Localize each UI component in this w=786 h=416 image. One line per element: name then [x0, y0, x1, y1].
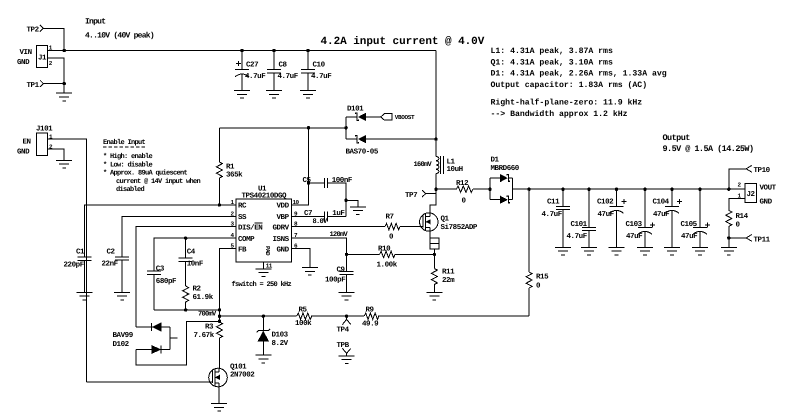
- J1 pin 1: [49, 45, 53, 52]
- svg-text:D103: D103: [272, 331, 289, 340]
- node output rail junctions: [527, 188, 730, 191]
- svg-text:2: 2: [49, 60, 53, 67]
- capacitor C11: [542, 189, 571, 247]
- svg-text:TPS40210DGQ: TPS40210DGQ: [242, 192, 288, 201]
- svg-text:2: 2: [738, 182, 742, 189]
- connector J101: [36, 125, 53, 156]
- U1 PAD pin 11: [264, 246, 273, 270]
- ground (TPB): [339, 356, 355, 364]
- svg-text:49.9: 49.9: [362, 320, 379, 329]
- wire J101 EN to Q101 gate: [47, 139, 86, 382]
- resistor R11: [431, 269, 455, 293]
- connector J2: [745, 183, 757, 202]
- wire VIN feed down to L1: [435, 51, 437, 157]
- ground (J101): [56, 160, 72, 168]
- svg-text:TP10: TP10: [754, 166, 771, 175]
- svg-text:disabled: disabled: [116, 185, 145, 194]
- ground (C103): [637, 247, 653, 255]
- U1 pin 7 ISNS: [273, 232, 299, 244]
- J101 pin 2: [49, 144, 53, 151]
- svg-text:R7: R7: [386, 214, 394, 222]
- ground (C1): [76, 292, 92, 300]
- wire 700mV feedback rail: [198, 310, 529, 318]
- U1 pin 2 SS: [231, 210, 248, 222]
- connector J1: [36, 45, 47, 67]
- U1 pin 6 GND: [277, 243, 299, 255]
- svg-text:0: 0: [536, 282, 541, 291]
- svg-text:GND: GND: [760, 198, 773, 207]
- ground (C2): [114, 292, 130, 300]
- svg-text:C8: C8: [279, 61, 288, 70]
- svg-text:120mV: 120mV: [330, 231, 349, 239]
- svg-text:Enable Input: Enable Input: [103, 138, 146, 147]
- svg-text:R3: R3: [205, 323, 214, 332]
- wire output rail: [512, 188, 745, 190]
- node SW: [434, 188, 437, 191]
- J2 pin 1: [729, 193, 745, 211]
- transistor Q101 2N7002: [209, 363, 256, 404]
- svg-text:100pF: 100pF: [325, 276, 346, 285]
- svg-text:Si7852ADP: Si7852ADP: [441, 223, 478, 232]
- label input current note: [321, 36, 485, 48]
- svg-text:C1: C1: [76, 248, 85, 257]
- svg-text:Q101: Q101: [230, 363, 247, 372]
- wire RC line: [84, 205, 236, 257]
- svg-text:GND: GND: [277, 245, 290, 254]
- U1 pin 9 VBP: [277, 210, 299, 222]
- U1 pin 4 COMP: [231, 232, 256, 244]
- wire DIS/EN line: [136, 227, 236, 327]
- ground (C8): [266, 91, 282, 99]
- svg-text:C3: C3: [156, 264, 165, 273]
- svg-text:BAV99: BAV99: [113, 331, 134, 340]
- svg-text:4.7uF: 4.7uF: [542, 211, 563, 219]
- capacitor C102: [597, 189, 626, 247]
- test point TP10: [729, 165, 771, 189]
- svg-text:22nF: 22nF: [102, 260, 119, 269]
- svg-text:4.7uF: 4.7uF: [311, 73, 332, 81]
- ground (R11): [426, 292, 442, 300]
- label 8.0V: [313, 218, 329, 226]
- svg-text:7.67k: 7.67k: [194, 331, 215, 340]
- svg-text:2N7002: 2N7002: [230, 371, 255, 380]
- ground (C9): [339, 292, 355, 300]
- svg-text:47uF: 47uF: [681, 233, 698, 241]
- svg-text:COMP: COMP: [238, 235, 255, 244]
- svg-text:Q1: Q1: [441, 215, 450, 224]
- wire Q101 gate line: [87, 381, 213, 383]
- node FB/BAV99 branch: [218, 320, 221, 323]
- svg-text:C10: C10: [313, 61, 326, 70]
- svg-text:100nF: 100nF: [332, 176, 353, 185]
- wire comp network bottom rail: [154, 308, 221, 311]
- resistor R3: [194, 322, 223, 368]
- svg-text:D1: D1: [491, 157, 500, 165]
- svg-text:100k: 100k: [295, 319, 312, 328]
- svg-text:47uF: 47uF: [598, 211, 615, 219]
- svg-text:22m: 22m: [442, 276, 455, 285]
- svg-text:4.7uF: 4.7uF: [278, 73, 299, 81]
- ground (C27): [234, 91, 250, 99]
- svg-text:160mV: 160mV: [414, 161, 433, 169]
- svg-text:C9: C9: [337, 266, 346, 275]
- label fswitch: [232, 280, 292, 289]
- resistor R14: [726, 210, 749, 238]
- resistor R9: [362, 305, 379, 328]
- svg-text:VBP: VBP: [277, 214, 290, 222]
- capacitor C101: [567, 189, 597, 247]
- test point TP7: [405, 190, 436, 200]
- diode D103 zener 8.2V: [257, 315, 289, 356]
- svg-text:VDD: VDD: [277, 203, 290, 211]
- svg-text:C103: C103: [626, 220, 643, 229]
- svg-text:700mV: 700mV: [198, 310, 217, 318]
- wire VIN rail: [48, 50, 436, 52]
- svg-text:C102: C102: [597, 198, 614, 207]
- label EN: [23, 138, 31, 146]
- svg-text:FB: FB: [238, 246, 247, 254]
- svg-text:GND: GND: [17, 148, 30, 157]
- svg-text:0: 0: [462, 196, 467, 205]
- svg-text:* Approx. 89uA quiescent: * Approx. 89uA quiescent: [103, 169, 188, 178]
- U1 pin 5 FB: [231, 243, 248, 255]
- U1 pin 10 VDD: [277, 199, 300, 211]
- svg-text:8.0V: 8.0V: [313, 218, 329, 226]
- wire ISNS line: [291, 231, 348, 271]
- svg-text:Output: Output: [663, 133, 691, 143]
- capacitor C103: [626, 189, 655, 247]
- svg-text:VBOOST: VBOOST: [395, 114, 415, 121]
- resistor R5: [295, 306, 312, 328]
- svg-text:VIN: VIN: [20, 49, 32, 57]
- svg-text:4.2A input current @ 4.0V: 4.2A input current @ 4.0V: [321, 36, 485, 48]
- label current annotations: [491, 47, 667, 90]
- svg-text:R10: R10: [378, 245, 391, 254]
- wire GDRV line / resistor R7: [291, 214, 423, 242]
- label Output header: [663, 133, 754, 154]
- ground (R14): [721, 247, 737, 255]
- svg-text:10uH: 10uH: [447, 165, 463, 174]
- test point TP2: [27, 25, 44, 34]
- svg-text:BAS70-05: BAS70-05: [346, 148, 379, 157]
- svg-text:47uF: 47uF: [626, 233, 643, 241]
- wire TP2 to VIN rail: [43, 28, 64, 50]
- diode D1 MBRD660: [488, 157, 520, 204]
- capacitor C10: [301, 49, 332, 91]
- svg-text:R15: R15: [536, 274, 549, 282]
- wire VDD rail: [219, 127, 346, 129]
- node R1 to RC line: [218, 203, 221, 206]
- label VOUT: [760, 184, 777, 193]
- ground (C10): [300, 91, 316, 99]
- svg-text:R9: R9: [366, 305, 375, 314]
- svg-text:C105: C105: [681, 220, 698, 229]
- svg-text:R2: R2: [193, 284, 202, 293]
- svg-text:61.9k: 61.9k: [193, 293, 214, 302]
- wire VDD pin to rail: [291, 126, 310, 205]
- node C5/C7 ground tap: [344, 199, 358, 207]
- U1 pin 3 DIS/EN: [231, 221, 263, 233]
- svg-text:4..10V (40V peak): 4..10V (40V peak): [85, 32, 154, 41]
- svg-text:4.7uF: 4.7uF: [245, 73, 266, 81]
- svg-text:C104: C104: [653, 198, 670, 207]
- capacitor C104: [653, 189, 682, 247]
- ground (C5/C7): [350, 207, 366, 215]
- U1 pin 1 RC: [231, 199, 248, 211]
- svg-text:TP2: TP2: [27, 25, 40, 34]
- ground (C101): [581, 247, 597, 255]
- capacitor C8: [267, 49, 299, 91]
- ground (C11): [555, 247, 571, 255]
- svg-text:220pF: 220pF: [64, 261, 85, 270]
- J1 pin 2: [49, 60, 53, 67]
- resistor R15: [526, 189, 549, 316]
- wire U1 GND pin to ground: [291, 249, 310, 268]
- test point TP11: [727, 235, 771, 245]
- net tag VBOOST: [381, 114, 415, 122]
- node ISNS/R10: [345, 253, 348, 256]
- svg-text:1.00k: 1.00k: [377, 261, 398, 270]
- svg-text:RC: RC: [238, 202, 247, 211]
- wire COMP line: [154, 238, 236, 271]
- test point TP1: [27, 80, 66, 90]
- svg-text:D102: D102: [113, 340, 130, 349]
- ground (U1 GND pin): [302, 268, 318, 276]
- svg-text:C2: C2: [107, 248, 116, 257]
- svg-text:TP7: TP7: [405, 192, 417, 200]
- svg-text:TP4: TP4: [337, 327, 350, 335]
- svg-text:* Low: disable: * Low: disable: [103, 160, 153, 169]
- svg-text:SS: SS: [238, 213, 247, 222]
- svg-text:TP11: TP11: [754, 236, 771, 244]
- wire SS line: [122, 216, 236, 257]
- capacitor C4: [179, 237, 204, 287]
- svg-text:ISNS: ISNS: [273, 235, 290, 244]
- label GND (J1): [17, 58, 30, 67]
- capacitor C9: [325, 266, 354, 293]
- svg-text:0: 0: [389, 232, 394, 241]
- ground (D103): [255, 355, 271, 363]
- svg-text:4.7uF: 4.7uF: [567, 233, 588, 241]
- resistor R1: [216, 128, 243, 205]
- svg-text:365k: 365k: [226, 171, 243, 180]
- svg-text:Input: Input: [85, 18, 106, 27]
- svg-text:C5: C5: [303, 176, 312, 185]
- svg-text:J1: J1: [38, 55, 47, 63]
- svg-text:VOUT: VOUT: [760, 184, 777, 193]
- svg-text:C11: C11: [547, 198, 560, 207]
- svg-text:current @ 14V input when: current @ 14V input when: [116, 177, 201, 186]
- wire J1 pin2 to ground: [48, 58, 64, 93]
- svg-text:R1: R1: [226, 164, 235, 172]
- capacitor C27: [235, 49, 266, 91]
- inductor L1: [414, 156, 463, 189]
- svg-text:* High: enable: * High: enable: [103, 152, 153, 161]
- J101 pin 1: [49, 133, 53, 140]
- ground (C105): [692, 247, 708, 255]
- transistor Q1 Si7852ADP: [420, 213, 478, 238]
- test point TP4: [337, 315, 351, 335]
- svg-text:GDRV: GDRV: [273, 223, 290, 232]
- svg-text:C101: C101: [571, 220, 588, 229]
- resistor R12: [436, 179, 490, 205]
- capacitor C2: [102, 248, 130, 293]
- svg-text:C7: C7: [304, 209, 312, 218]
- svg-text:MBRD660: MBRD660: [491, 164, 520, 173]
- svg-text:Q1: 4.31A peak, 3.10A rms: Q1: 4.31A peak, 3.10A rms: [491, 58, 613, 67]
- svg-text:PAD: PAD: [264, 246, 271, 256]
- svg-text:J2: J2: [747, 190, 756, 199]
- wire R14 to ground: [728, 238, 730, 247]
- svg-text:R5: R5: [299, 306, 308, 314]
- capacitor C5: [303, 176, 353, 216]
- label GND (J2): [760, 198, 773, 207]
- svg-text:fswitch = 250 kHz: fswitch = 250 kHz: [232, 280, 292, 289]
- svg-text:0: 0: [736, 220, 741, 229]
- svg-text:C27: C27: [246, 61, 258, 70]
- node VIN column / BAS70: [434, 137, 437, 140]
- svg-text:8.2V: 8.2V: [272, 339, 289, 348]
- capacitor C105: [681, 189, 710, 247]
- svg-text:Right-half-plane-zero: 11.9 kH: Right-half-plane-zero: 11.9 kHz: [491, 98, 643, 108]
- Q1 source pads: [430, 238, 439, 269]
- svg-text:TP1: TP1: [27, 82, 40, 90]
- resistor R2: [183, 284, 214, 310]
- svg-text:1uF: 1uF: [332, 210, 345, 218]
- svg-text:GND: GND: [17, 58, 30, 67]
- node VIN rail junction TP2: [62, 49, 65, 52]
- label GND (J101): [17, 148, 30, 157]
- ground (C104): [664, 247, 680, 255]
- svg-text:D101: D101: [347, 105, 364, 114]
- label Enable Input note: [103, 138, 201, 194]
- wire SW to Q1 drain: [430, 189, 436, 213]
- svg-text:DIS/EN: DIS/EN: [238, 223, 262, 232]
- capacitor C3: [147, 264, 177, 310]
- svg-text:L1: 4.31A peak, 3.87A rms: L1: 4.31A peak, 3.87A rms: [491, 47, 613, 56]
- diode D101 BAS70-05: [344, 105, 436, 157]
- svg-text:--> Bandwidth approx 1.2 kHz: --> Bandwidth approx 1.2 kHz: [491, 110, 628, 119]
- capacitor C1: [64, 248, 92, 293]
- svg-text:R12: R12: [456, 179, 469, 188]
- resistor R10: [347, 245, 437, 270]
- svg-text:680pF: 680pF: [156, 277, 177, 286]
- svg-text:EN: EN: [23, 138, 31, 146]
- svg-text:9.5V @ 1.5A (14.25W): 9.5V @ 1.5A (14.25W): [663, 144, 754, 154]
- ground (C102): [609, 247, 625, 255]
- svg-text:R14: R14: [736, 213, 749, 221]
- U1 pin 8 GDRV: [273, 221, 299, 233]
- J2 pin 2: [738, 182, 742, 189]
- ground (Q101): [211, 404, 227, 412]
- diode D102 BAV99: [113, 321, 220, 365]
- label VIN: [20, 49, 32, 57]
- svg-text:47uF: 47uF: [653, 211, 670, 219]
- svg-text:10nF: 10nF: [187, 260, 204, 269]
- op-amp U1 TPS40210DGQ: [236, 186, 291, 262]
- wire FB line: [220, 249, 237, 322]
- label bandwidth annotations: [491, 98, 643, 119]
- svg-text:D1: 4.31A peak, 2.26A rms, 1.3: D1: 4.31A peak, 2.26A rms, 1.33A avg: [491, 70, 667, 79]
- capacitor C7: [291, 209, 346, 221]
- svg-text:Output capacitor: 1.83A rms (A: Output capacitor: 1.83A rms (AC): [491, 81, 648, 90]
- ground (U1 PAD): [256, 269, 272, 277]
- wire J101 pin2 to ground: [47, 149, 64, 160]
- svg-text:R11: R11: [442, 269, 455, 277]
- label Input header: [85, 18, 154, 41]
- ground (J1): [56, 93, 72, 101]
- svg-text:C4: C4: [187, 248, 196, 257]
- test point TPB: [337, 342, 351, 356]
